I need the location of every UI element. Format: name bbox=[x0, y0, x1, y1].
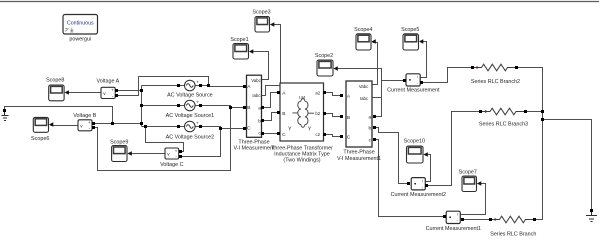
svg-text:Voltage A: Voltage A bbox=[97, 79, 120, 85]
svg-text:Current Measurement: Current Measurement bbox=[387, 88, 440, 94]
svg-text:B: B bbox=[247, 105, 250, 111]
svg-text:Current Measurement1: Current Measurement1 bbox=[426, 226, 481, 232]
svg-text:Iabc: Iabc bbox=[252, 93, 261, 98]
svg-text:Inductance Matrix Type: Inductance Matrix Type bbox=[274, 151, 330, 157]
svg-text:Scope3: Scope3 bbox=[252, 9, 270, 15]
svg-text:C: C bbox=[282, 132, 286, 138]
svg-text:Iabc: Iabc bbox=[360, 96, 369, 101]
svg-text:Scope5: Scope5 bbox=[401, 27, 419, 33]
svg-text:b: b bbox=[368, 126, 371, 132]
svg-text:a2: a2 bbox=[315, 90, 320, 95]
svg-text:AC Voltage Source: AC Voltage Source bbox=[167, 93, 213, 99]
svg-text:Scope7: Scope7 bbox=[459, 169, 477, 175]
svg-text:+: + bbox=[175, 148, 178, 153]
svg-text:Voltage C: Voltage C bbox=[160, 162, 183, 168]
svg-text:AC Voltage Source2: AC Voltage Source2 bbox=[166, 134, 215, 140]
svg-text:Series RLC Branch3: Series RLC Branch3 bbox=[479, 122, 528, 128]
svg-text:a: a bbox=[258, 107, 261, 112]
svg-text:Scope4: Scope4 bbox=[354, 27, 372, 33]
svg-text:b2: b2 bbox=[315, 111, 320, 116]
svg-text:V-I Measurement1: V-I Measurement1 bbox=[337, 156, 381, 162]
svg-text:B: B bbox=[282, 111, 285, 117]
svg-text:Series RLC Branch: Series RLC Branch bbox=[490, 232, 536, 238]
svg-text:Scope8: Scope8 bbox=[46, 77, 64, 83]
svg-text:Vabc: Vabc bbox=[251, 78, 261, 83]
svg-text:(Two Windings): (Two Windings) bbox=[283, 157, 320, 163]
svg-text:i: i bbox=[422, 179, 423, 183]
svg-text:+: + bbox=[196, 121, 199, 126]
svg-text:B: B bbox=[347, 115, 350, 121]
svg-text:Current Measurement2: Current Measurement2 bbox=[391, 192, 446, 198]
svg-text:Scope6: Scope6 bbox=[31, 136, 49, 142]
svg-text:V-I Measurement: V-I Measurement bbox=[233, 146, 275, 152]
svg-text:Voltage B: Voltage B bbox=[73, 113, 96, 119]
svg-text:Scope2: Scope2 bbox=[315, 53, 333, 59]
svg-text:+: + bbox=[196, 100, 199, 105]
svg-text:+: + bbox=[88, 120, 91, 125]
svg-text:b: b bbox=[258, 119, 261, 125]
svg-text:powergui: powergui bbox=[69, 36, 91, 42]
svg-text:i: i bbox=[457, 213, 458, 217]
svg-text:Vabc: Vabc bbox=[359, 84, 369, 89]
svg-text:Continuous: Continuous bbox=[67, 21, 94, 27]
svg-text:Scope9: Scope9 bbox=[110, 140, 128, 146]
svg-text:C: C bbox=[247, 125, 251, 131]
svg-text:Series RLC Branch2: Series RLC Branch2 bbox=[471, 79, 520, 85]
svg-text:C: C bbox=[347, 135, 351, 141]
svg-text:c2: c2 bbox=[316, 132, 321, 137]
svg-text:AC Voltage Source1: AC Voltage Source1 bbox=[166, 113, 215, 119]
svg-text:Scope1: Scope1 bbox=[230, 37, 248, 43]
svg-text:Three-Phase: Three-Phase bbox=[343, 150, 374, 156]
svg-text:Scope10: Scope10 bbox=[404, 138, 425, 144]
svg-text:Three-Phase: Three-Phase bbox=[238, 139, 269, 145]
svg-text:+: + bbox=[111, 88, 114, 93]
svg-text:a: a bbox=[368, 116, 371, 121]
svg-text:+: + bbox=[196, 80, 199, 85]
